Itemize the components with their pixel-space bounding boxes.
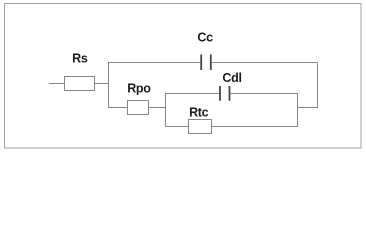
wire (junction A to Rpo) — [109, 107, 128, 109]
wire (left input stub) — [49, 83, 65, 85]
resistor Rpo — [128, 101, 149, 115]
node A (vertical junction after Rs) — [108, 62, 110, 108]
wire (Rtc branch left) — [166, 126, 189, 128]
wire (Rtc branch right) — [212, 126, 298, 128]
wire (Rs to junction A) — [95, 83, 109, 85]
node B (vertical junction after Rpo) — [165, 93, 167, 127]
svg-text:Rs: Rs — [72, 52, 88, 66]
wire (output stub) — [298, 107, 318, 109]
resistor Rtc — [189, 120, 212, 134]
wire (outer right vertical) — [317, 63, 319, 109]
wire (inner right vertical) — [297, 93, 299, 127]
svg-text:Cdl: Cdl — [222, 71, 241, 85]
capacitor Cc — [201, 55, 211, 71]
wire (top branch right of Cc) — [211, 62, 318, 64]
wire (Rpo to junction B) — [149, 107, 166, 109]
svg-text:Cc: Cc — [197, 31, 213, 45]
wire (Cdl branch left) — [166, 93, 221, 95]
wire (top branch left of Cc) — [109, 62, 202, 64]
capacitor Cdl — [220, 86, 230, 101]
resistor Rs — [65, 77, 95, 91]
wire (Cdl branch right) — [230, 93, 298, 95]
svg-text:Rtc: Rtc — [189, 106, 209, 120]
svg-text:Rpo: Rpo — [127, 81, 151, 95]
